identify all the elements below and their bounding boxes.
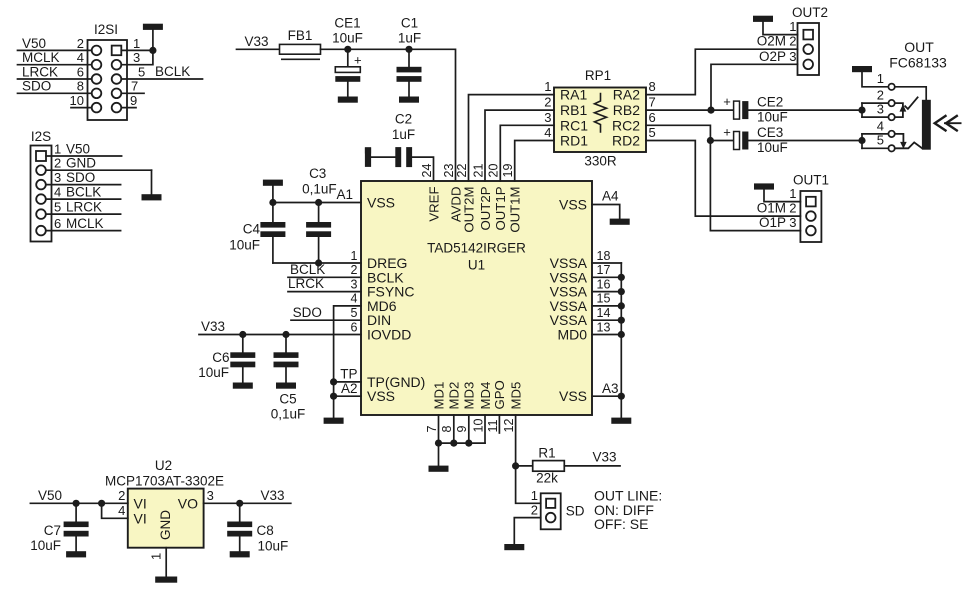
svg-text:V33: V33 (261, 488, 285, 503)
wire A1 row to C3 (318, 203, 320, 223)
svg-text:+: + (723, 125, 731, 140)
wire to C8 (239, 503, 241, 521)
svg-text:7: 7 (425, 426, 439, 433)
svg-text:3: 3 (351, 277, 358, 291)
RP1 zigzag symbol (595, 94, 607, 133)
junction VSSA bus (618, 302, 625, 309)
wire VSSA/MD0 pin 14 (592, 319, 621, 321)
wire C5 to ground (285, 368, 287, 383)
ground MD6/TP/A2 (324, 418, 344, 424)
wire C4 to DREG row (272, 237, 274, 263)
U1 left pin names (367, 195, 425, 405)
svg-text:A1: A1 (336, 187, 353, 202)
capacitor CE3 (electrolytic) (734, 132, 749, 150)
U1 right pin names (550, 197, 588, 405)
svg-text:4: 4 (54, 185, 61, 200)
wire I2SI pin 7 (121, 92, 144, 94)
svg-text:OUT2: OUT2 (792, 5, 828, 20)
wire V33 to FB1 (237, 48, 280, 50)
connector OUT2 (798, 23, 820, 75)
wire I2S pin 1 (V50) (46, 155, 122, 157)
svg-text:VSS: VSS (559, 388, 587, 404)
svg-text:U1: U1 (468, 258, 485, 273)
junction C3 top (315, 199, 322, 206)
svg-text:IOVDD: IOVDD (367, 327, 411, 343)
wire RB2 to CE2 (646, 109, 734, 111)
svg-text:GPO: GPO (492, 380, 507, 409)
svg-text:2: 2 (531, 503, 538, 518)
wire VSS A1 row (273, 202, 361, 204)
ground U2 (155, 577, 177, 583)
svg-text:R1: R1 (538, 446, 555, 461)
svg-text:MD0: MD0 (557, 327, 587, 343)
svg-text:C3: C3 (309, 166, 326, 181)
svg-text:2: 2 (544, 95, 551, 110)
svg-text:O2P: O2P (759, 49, 786, 64)
svg-text:1: 1 (789, 186, 796, 201)
svg-text:13: 13 (597, 320, 611, 334)
wire CE1 to ground (347, 82, 349, 97)
junction VI pin4 branch (98, 500, 105, 507)
connector I2S (31, 146, 52, 242)
svg-text:20: 20 (487, 164, 501, 178)
wire SD pin 2 to ground (514, 518, 540, 544)
wire IOVDD pin 6 (V33) (199, 334, 361, 336)
svg-text:MCLK: MCLK (22, 50, 60, 65)
svg-text:TAD5142IRGER: TAD5142IRGER (427, 241, 526, 256)
svg-text:SDO: SDO (66, 170, 95, 185)
jack switch contact pins 2/3 (895, 97, 918, 117)
svg-text:A3: A3 (602, 381, 619, 396)
wire pin 11 stub (GPO n.c.) (498, 415, 500, 433)
svg-text:O1M: O1M (757, 201, 786, 216)
svg-text:V33: V33 (592, 449, 616, 464)
junction pin1/pin3/gnd (149, 47, 156, 54)
op-amp / codec IC U1 TAD5142IRGER body (361, 181, 592, 415)
svg-text:LRCK: LRCK (22, 64, 58, 79)
regulator U2 body (128, 489, 204, 548)
wire jack pin1 to sleeve (895, 87, 926, 100)
junction VSSA bus (618, 317, 625, 324)
svg-text:3: 3 (207, 488, 214, 503)
svg-text:MD2: MD2 (447, 382, 462, 410)
ground OUT1 pin1 (754, 183, 774, 189)
svg-text:22: 22 (455, 164, 469, 178)
svg-text:CE1: CE1 (334, 15, 360, 30)
svg-text:1: 1 (133, 36, 140, 51)
svg-text:8: 8 (440, 426, 454, 433)
ground A4 (610, 219, 630, 225)
wire to SD pin 1 (516, 466, 541, 503)
svg-text:LRCK: LRCK (66, 200, 102, 215)
svg-text:V50: V50 (38, 488, 62, 503)
U2 pin names (134, 495, 199, 540)
capacitor C4 (260, 222, 285, 237)
wire pin 9 stub (468, 415, 470, 443)
svg-text:10uF: 10uF (30, 538, 61, 553)
svg-text:1: 1 (54, 141, 61, 156)
svg-text:OUT2P: OUT2P (478, 186, 493, 230)
wire I2S pin 6 (MCLK) (46, 230, 121, 232)
svg-text:MCP1703AT-3302E: MCP1703AT-3302E (105, 474, 224, 489)
svg-text:+: + (723, 94, 731, 109)
wire ground to jack pin 1 (862, 72, 888, 87)
wire DREG pin 1 (273, 262, 361, 264)
ground I2S pin2 (142, 194, 162, 200)
wire OUT1 pin1 to ground (764, 190, 800, 202)
junction C4 top (269, 199, 276, 206)
svg-text:7: 7 (131, 79, 138, 94)
junction C8 (236, 500, 243, 507)
junction pin7 (435, 440, 442, 447)
wire I2SI pin 1 (121, 49, 153, 51)
svg-text:4: 4 (351, 292, 358, 306)
svg-text:RC1: RC1 (560, 117, 588, 133)
svg-text:0,1uF: 0,1uF (302, 182, 337, 197)
ground CE1 (338, 97, 358, 103)
svg-text:15: 15 (597, 292, 611, 306)
junction C1 (405, 46, 412, 53)
wire C2 to VREF pin 24 (412, 157, 433, 181)
svg-text:10: 10 (471, 419, 485, 433)
wire C6 to ground (242, 368, 244, 383)
svg-text:TP: TP (340, 367, 357, 382)
svg-text:6: 6 (649, 110, 656, 125)
ground MD1-MD4 (429, 466, 449, 472)
wire pin 7 stub (438, 415, 440, 443)
jack switch contact pins 4/5 (895, 134, 922, 149)
wire to jack pin 4 (862, 133, 888, 135)
wire MD5 pin 12 down (515, 415, 517, 466)
capacitor C5 (274, 352, 299, 367)
svg-text:OUT1P: OUT1P (493, 186, 508, 230)
wire pin 8 stub (453, 415, 455, 443)
junction O2P/CE2 (707, 107, 714, 114)
wire I2SI pin 6 (LRCK) (18, 78, 92, 80)
note text OUT LINE (594, 488, 662, 532)
wire CE2 to jack 2/3 (748, 109, 862, 111)
svg-text:10uF: 10uF (258, 539, 289, 554)
svg-text:6: 6 (77, 64, 84, 79)
svg-text:4: 4 (118, 503, 125, 518)
wire I2S GND down (151, 170, 153, 194)
capacitor CE2 (electrolytic) (734, 101, 749, 119)
svg-text:OUT1M: OUT1M (508, 187, 523, 233)
svg-text:18: 18 (597, 249, 611, 263)
capacitor C7 (64, 522, 89, 537)
svg-text:5: 5 (138, 64, 145, 79)
svg-text:+: + (354, 52, 362, 67)
svg-text:C8: C8 (257, 523, 274, 538)
capacitor C1 (397, 67, 422, 82)
RP1 pin names (560, 87, 640, 149)
svg-text:MD3: MD3 (462, 382, 477, 410)
wire VSS A2 row (334, 395, 361, 397)
svg-text:U2: U2 (155, 458, 172, 473)
wire to CE3 (710, 140, 733, 142)
svg-text:V50: V50 (22, 36, 46, 51)
wire I2SI pin 4 (MCLK) (18, 64, 92, 66)
resistor R1 (533, 461, 565, 472)
ground C1 (399, 97, 419, 103)
svg-text:4: 4 (544, 125, 551, 140)
svg-text:16: 16 (597, 277, 611, 291)
svg-text:21: 21 (471, 164, 485, 178)
svg-text:1: 1 (351, 249, 358, 263)
svg-text:OUT2M: OUT2M (461, 187, 476, 233)
wire jack 4-5 tie (861, 134, 863, 148)
capacitor C6 (230, 352, 255, 367)
svg-text:10uF: 10uF (229, 238, 260, 253)
svg-text:GND: GND (66, 156, 96, 171)
wire VSSA/MD0 pin 13 (592, 334, 621, 336)
svg-text:3: 3 (133, 50, 140, 65)
wire VSSA/MD0 pin 15 (592, 305, 621, 307)
wire U2 GND pin 1 (165, 548, 167, 577)
junction VSSA bus (618, 274, 625, 281)
junction VSSA bus (618, 331, 625, 338)
svg-text:6: 6 (351, 320, 358, 334)
svg-text:V33: V33 (201, 319, 225, 334)
svg-text:OUT: OUT (904, 39, 934, 55)
svg-text:17: 17 (597, 263, 611, 277)
svg-text:RB2: RB2 (613, 102, 640, 118)
ground jack pin1 (852, 66, 872, 72)
capacitor CE1 (electrolytic) (335, 67, 360, 82)
svg-text:RA2: RA2 (613, 87, 640, 103)
svg-text:2: 2 (877, 88, 884, 103)
wire MD6 pin 4 to ground (334, 306, 361, 418)
svg-text:OUT1: OUT1 (793, 173, 829, 188)
svg-text:VSS: VSS (367, 195, 395, 211)
svg-text:C4: C4 (243, 222, 261, 237)
svg-text:7: 7 (649, 95, 656, 110)
resistor network RP1 body (554, 88, 646, 153)
svg-text:22k: 22k (536, 471, 558, 486)
svg-text:C2: C2 (395, 112, 412, 127)
wire I2SI pin 8 (SDO) (18, 92, 92, 94)
svg-text:10uF: 10uF (332, 31, 363, 46)
svg-text:0,1uF: 0,1uF (271, 407, 306, 422)
wire VSS A3 row (592, 395, 621, 397)
svg-text:O2M: O2M (757, 34, 786, 49)
svg-text:23: 23 (442, 164, 456, 178)
svg-text:MD4: MD4 (478, 382, 493, 410)
svg-text:VO: VO (178, 495, 198, 511)
svg-text:2: 2 (77, 36, 84, 51)
svg-text:LRCK: LRCK (288, 276, 324, 291)
junction C6 (239, 331, 246, 338)
wire CE3 to jack 4/5 (748, 140, 862, 142)
svg-text:CE3: CE3 (757, 125, 783, 140)
wire VSS A4 to ground (592, 205, 620, 219)
svg-text:8: 8 (649, 79, 656, 94)
wire FB1 to AVDD pin 23 (321, 49, 456, 181)
junction CE1 (344, 46, 351, 53)
wire OUT1M pin19 to RD1 (515, 141, 554, 182)
wire I2SI pin 9 (121, 107, 136, 109)
wire VSSA bus down (620, 263, 622, 418)
svg-text:1: 1 (149, 553, 164, 560)
junction RC2/CE3/O1P (707, 137, 714, 144)
svg-text:FC68133: FC68133 (889, 55, 947, 71)
junction TP (330, 378, 337, 385)
wire OUT1P pin20 to RC1 (500, 125, 554, 181)
connector SD (541, 493, 561, 529)
ground C8 (230, 551, 250, 557)
ground C7 (66, 551, 86, 557)
wire VSSA/MD0 pin 16 (592, 291, 621, 293)
wire V50 to U2 VI (30, 502, 127, 504)
wire pin 10 stub (484, 415, 486, 443)
svg-text:5: 5 (649, 125, 656, 140)
svg-text:1: 1 (531, 488, 538, 503)
junction pin8 (450, 440, 457, 447)
junction C5 (282, 331, 289, 338)
svg-text:5: 5 (877, 133, 884, 148)
wire to C1 (408, 49, 410, 67)
wire R1 to V33 (564, 465, 620, 467)
wire to jack pin 2 (862, 102, 888, 104)
jack sleeve bar (922, 100, 931, 150)
svg-text:3: 3 (789, 49, 796, 64)
svg-text:2: 2 (789, 201, 796, 216)
svg-text:OFF: SE: OFF: SE (594, 516, 648, 532)
svg-text:RB1: RB1 (560, 102, 587, 118)
wire I2SI pin 3 (121, 50, 153, 64)
junction VSSA bus (618, 288, 625, 295)
ground OUT2 pin1 (753, 16, 773, 22)
ground C6 (233, 383, 253, 389)
junction A2 (330, 393, 337, 400)
svg-text:11: 11 (486, 419, 500, 432)
svg-text:MCLK: MCLK (66, 216, 104, 231)
wire I2SI pin 5 BCLK (121, 78, 202, 80)
svg-text:MD5: MD5 (508, 382, 523, 410)
wire I2S pin 4 (BCLK) (46, 198, 121, 200)
svg-text:5: 5 (351, 306, 358, 320)
svg-text:BCLK: BCLK (66, 185, 101, 200)
svg-text:330R: 330R (584, 154, 617, 169)
svg-text:V33: V33 (244, 34, 268, 49)
wire C8 to ground (239, 537, 241, 551)
wire OUT2P pin21 to RB1 (485, 110, 554, 181)
svg-text:C7: C7 (44, 523, 61, 538)
svg-text:10uF: 10uF (198, 365, 229, 380)
junction pin9 (465, 440, 472, 447)
svg-text:MD1: MD1 (431, 382, 446, 410)
connector I2SI (88, 40, 128, 120)
svg-text:GND: GND (158, 510, 173, 540)
ground SD (504, 544, 524, 550)
svg-text:4: 4 (77, 50, 84, 65)
wire BCLK pin 2 (288, 276, 361, 278)
svg-text:I2SI: I2SI (94, 22, 118, 37)
wire VSSA/MD0 pin 18 (592, 262, 621, 264)
svg-text:CE2: CE2 (757, 95, 783, 110)
wire bus to ground (438, 443, 440, 466)
wire VO to V33 (204, 502, 291, 504)
svg-text:RP1: RP1 (585, 68, 611, 83)
svg-text:VI: VI (134, 510, 147, 526)
ground C2 (rotated) (365, 147, 371, 153)
wire I2SI pin 2 (V50) (18, 49, 92, 51)
wire to flipped ground (272, 186, 274, 203)
wire I2S pin 2 (GND) (46, 169, 152, 171)
svg-text:19: 19 (501, 164, 515, 178)
ground C5 (276, 383, 296, 389)
wire ground to C2 (371, 156, 395, 158)
wire RD2 to O1M (646, 141, 800, 217)
svg-text:6: 6 (54, 216, 61, 231)
svg-text:SDO: SDO (22, 79, 51, 94)
svg-text:BCLK: BCLK (155, 64, 190, 79)
svg-text:10: 10 (70, 93, 84, 108)
capacitor C2 (395, 147, 412, 167)
wire C7 to ground (75, 537, 77, 551)
wire OUT2 pin 1 to ground (763, 22, 798, 35)
svg-text:1: 1 (877, 71, 884, 86)
wire to jack pin 3 (862, 116, 888, 118)
wire to R1 (516, 465, 533, 467)
svg-text:O1P: O1P (759, 215, 786, 230)
svg-text:2: 2 (54, 156, 61, 171)
svg-text:1uF: 1uF (398, 31, 421, 46)
capacitor C3 (306, 222, 331, 237)
svg-text:8: 8 (77, 79, 84, 94)
svg-text:2: 2 (351, 263, 358, 277)
svg-text:VSS: VSS (367, 388, 395, 404)
svg-text:RA1: RA1 (560, 87, 587, 103)
svg-text:SDO: SDO (293, 305, 322, 320)
ground A3 bus (611, 418, 631, 424)
svg-text:I2S: I2S (31, 129, 51, 144)
svg-text:9: 9 (130, 93, 137, 108)
svg-text:SD: SD (566, 504, 585, 519)
svg-text:BCLK: BCLK (290, 262, 325, 277)
wire to C7 (75, 503, 77, 521)
wire I2S pin 5 (LRCK) (46, 213, 121, 215)
wire to ground (152, 30, 154, 51)
wire A1 row to C4 (272, 203, 274, 223)
wire CE3 node to O1P (710, 141, 800, 231)
wire to CE1 (347, 49, 349, 67)
svg-text:VI: VI (134, 495, 147, 511)
wire C1 to ground (408, 82, 410, 97)
jack plug arrows (935, 115, 962, 131)
wire VSSA/MD0 pin 17 (592, 276, 621, 278)
svg-text:1uF: 1uF (392, 127, 415, 142)
wire C3 to DREG row (318, 237, 320, 263)
svg-text:24: 24 (420, 164, 434, 178)
svg-text:A2: A2 (341, 381, 358, 396)
wire TP(GND) row (334, 381, 361, 383)
svg-text:RC2: RC2 (612, 117, 640, 133)
wire I2SI pin 10 (71, 107, 92, 109)
wire RC2 down to CE3 node (646, 125, 710, 140)
svg-text:C1: C1 (401, 15, 418, 30)
junction MD5/R1/SD (512, 462, 519, 469)
svg-text:RD2: RD2 (612, 133, 640, 149)
wire I2S pin 3 (SDO) (46, 184, 121, 186)
svg-text:12: 12 (502, 419, 516, 433)
svg-text:VREF: VREF (426, 187, 441, 222)
wire to jack pin 5 (862, 147, 888, 149)
junction C3 bottom (315, 259, 322, 266)
svg-text:1: 1 (544, 79, 551, 94)
wire OUT2M pin22 to RA1 (469, 95, 555, 181)
ground (flipped) above C4 (263, 180, 283, 186)
